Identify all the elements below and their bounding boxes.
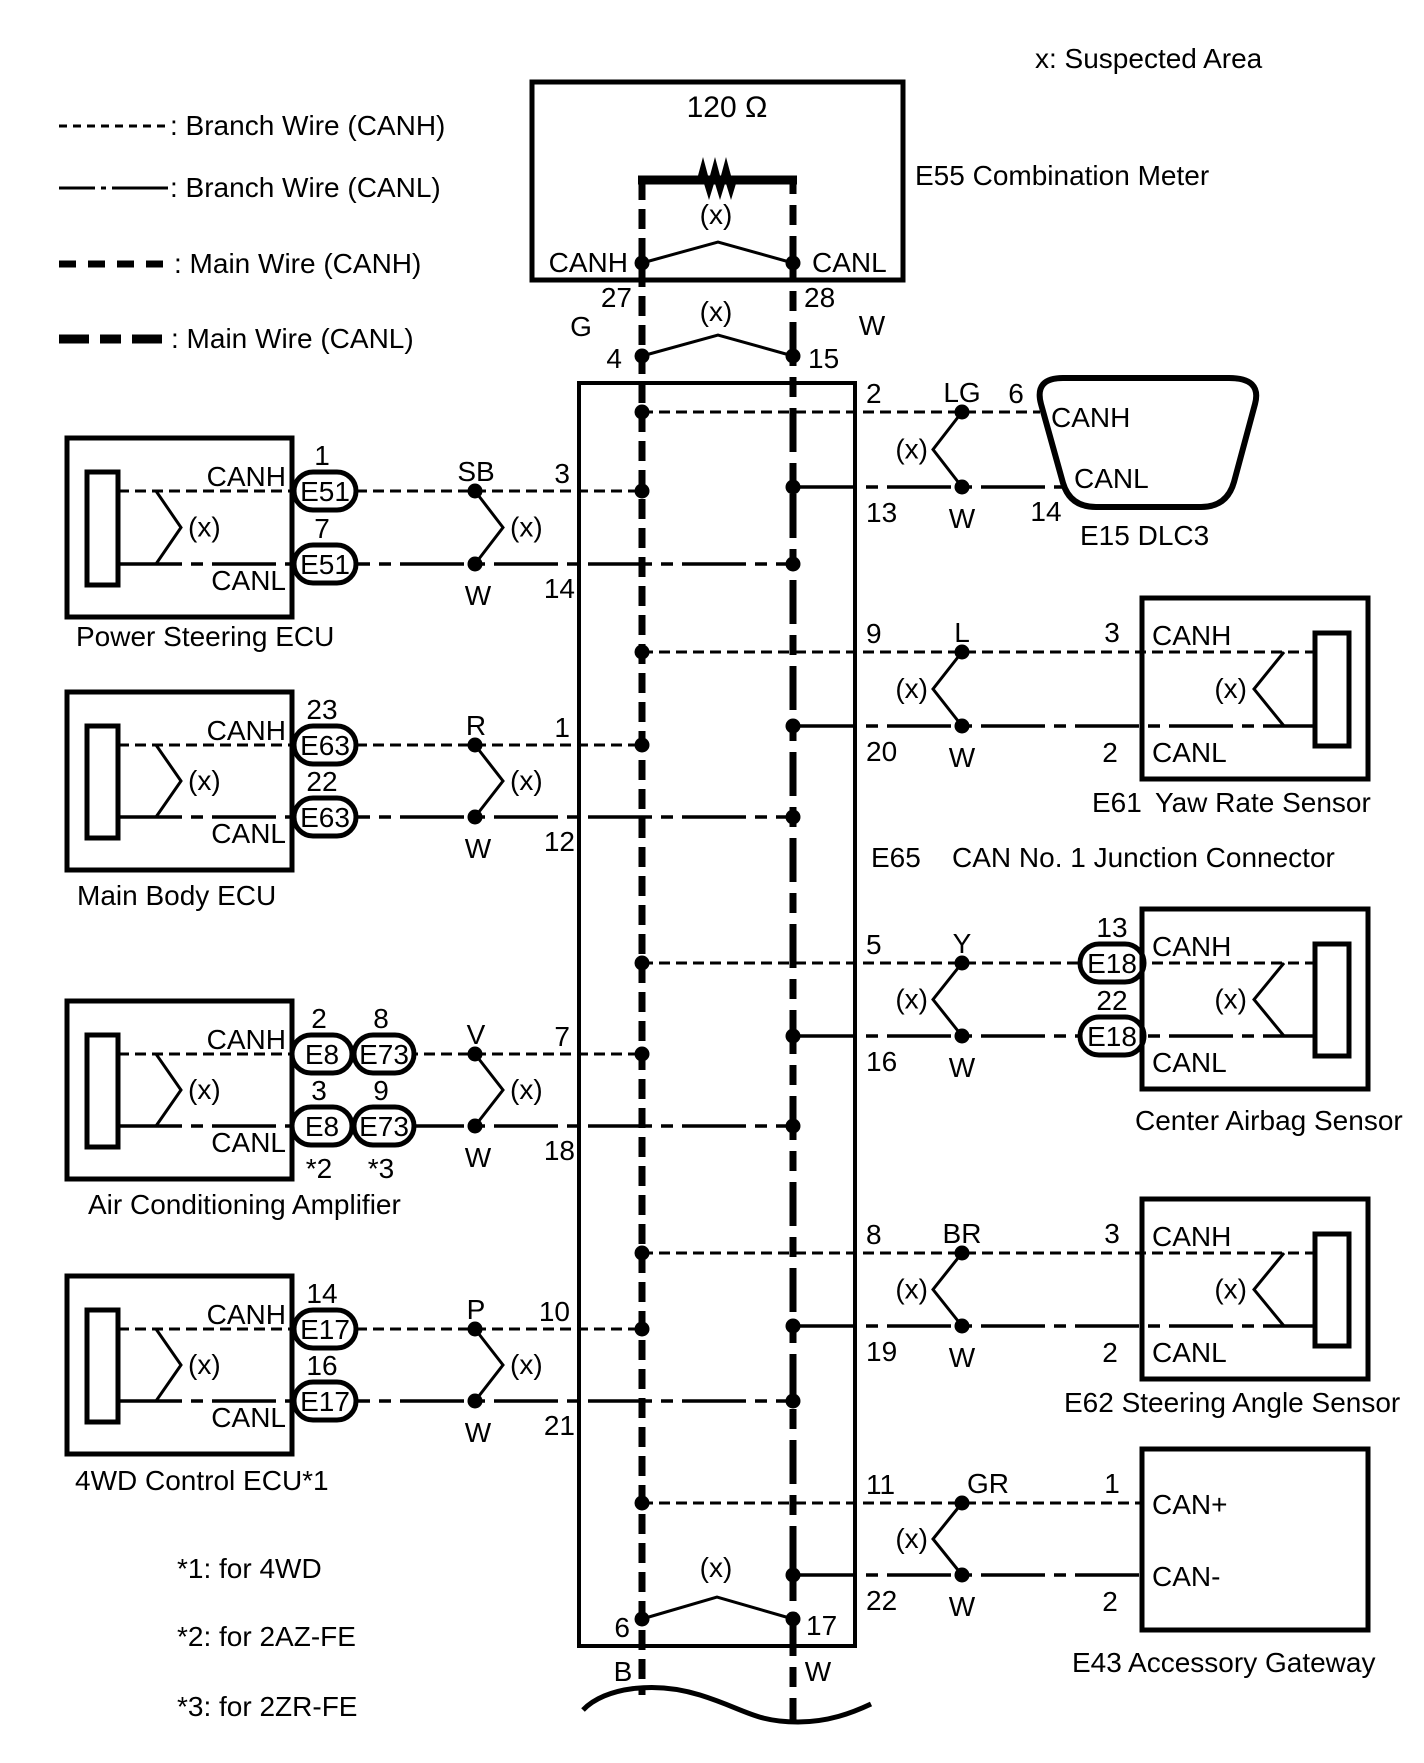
E62 Steering Angle Sensor box (1142, 1199, 1368, 1379)
svg-text:15: 15 (808, 343, 839, 374)
connector code E63 on CANL of Main Body ECU (294, 798, 356, 836)
legend sample line: Branch Wire (CANH), thin dashed (59, 125, 168, 128)
suspect pointer (x) at junction bottom (642, 1597, 793, 1619)
svg-text:CAN+: CAN+ (1152, 1489, 1227, 1520)
svg-text:x: Suspected Area: x: Suspected Area (1035, 43, 1263, 74)
svg-text:: Main Wire (CANH): : Main Wire (CANH) (174, 248, 421, 279)
svg-text:: Branch Wire (CANL): : Branch Wire (CANL) (170, 172, 441, 203)
svg-text:2: 2 (1102, 1337, 1118, 1368)
wire: branch CANH from main wire to Center Airbag Sensor (642, 962, 1315, 965)
svg-text:W: W (805, 1656, 832, 1687)
E15 DLC3 connector trapezoid (1040, 378, 1257, 507)
svg-text:CANH: CANH (1152, 620, 1231, 651)
wire: branch CANH from Power Steering ECU to main wire (118, 490, 642, 493)
svg-text:W: W (949, 742, 976, 773)
suspect pointer (x) on branch pair (475, 491, 503, 564)
node: main wire CANH joint for E61 Yaw Rate Sensor (635, 645, 650, 660)
node: main wire CANL joint for E15 DLC3 (786, 480, 801, 495)
svg-text:CANL: CANL (1152, 1047, 1227, 1078)
svg-text:(x): (x) (188, 765, 221, 796)
svg-text:E63: E63 (300, 802, 350, 833)
svg-text:W: W (949, 1342, 976, 1373)
node: main wire CANL joint for Air Conditioning Amplifier (786, 1119, 801, 1134)
svg-text:1: 1 (1104, 1468, 1120, 1499)
svg-text:E15 DLC3: E15 DLC3 (1080, 520, 1209, 551)
svg-text:1: 1 (554, 712, 570, 743)
node: main wire CANH joint for Center Airbag Sensor (635, 956, 650, 971)
svg-text:Yaw Rate Sensor: Yaw Rate Sensor (1155, 787, 1371, 818)
svg-text:CANL: CANL (812, 247, 887, 278)
svg-text:(x): (x) (895, 984, 928, 1015)
svg-text:12: 12 (544, 826, 575, 857)
svg-text:17: 17 (806, 1610, 837, 1641)
svg-text:5: 5 (866, 929, 882, 960)
suspect pointer (x) on branch pair (475, 1329, 503, 1401)
svg-text:20: 20 (866, 736, 897, 767)
svg-text:3: 3 (1104, 617, 1120, 648)
node on branch CANH (SB) (468, 484, 483, 499)
Air Conditioning Amplifier box (67, 1001, 292, 1179)
svg-text:P: P (467, 1294, 486, 1325)
svg-text:9: 9 (866, 618, 882, 649)
svg-text:8: 8 (373, 1003, 389, 1034)
node on branch CANL (955, 1029, 970, 1044)
node on branch CANL (W) (468, 1119, 483, 1134)
svg-text:3: 3 (1104, 1218, 1120, 1249)
node: main wire CANH joint for E62 Steering Angle Sensor (635, 1246, 650, 1261)
svg-text:E8: E8 (305, 1111, 339, 1142)
node on branch CANH (955, 1496, 970, 1511)
Power Steering ECU box (67, 438, 292, 617)
svg-text:2: 2 (1102, 1586, 1118, 1617)
suspect pointer (x) inside Power Steering ECU (156, 491, 181, 564)
svg-text:LG: LG (943, 377, 980, 408)
svg-text:22: 22 (1096, 985, 1127, 1016)
suspect pointer (x) on branch pair (933, 1503, 962, 1575)
svg-text:3: 3 (554, 458, 570, 489)
svg-text:(x): (x) (510, 1349, 543, 1380)
Center Airbag Sensor box (1142, 909, 1368, 1089)
svg-text:14: 14 (544, 573, 575, 604)
svg-text:CANH: CANH (207, 1299, 286, 1330)
svg-text:(x): (x) (895, 1523, 928, 1554)
suspect pointer (x) on branch pair (933, 652, 962, 726)
svg-text:CANL: CANL (211, 1127, 286, 1158)
svg-text:14: 14 (306, 1278, 337, 1309)
legend sample line: Main Wire (CANL), bold long-dash (59, 335, 172, 344)
svg-text:CANH: CANH (1152, 931, 1231, 962)
node: junction pin 4 (635, 349, 650, 364)
node on branch CANL (955, 719, 970, 734)
svg-text:21: 21 (544, 1410, 575, 1441)
svg-text:1: 1 (314, 440, 330, 471)
svg-text:L: L (954, 617, 970, 648)
node: main wire CANH joint for E43 Accessory Gateway (635, 1496, 650, 1511)
node: E55 CANH pin 27 (635, 256, 650, 271)
svg-text:16: 16 (306, 1350, 337, 1381)
resistor zigzag element (696, 157, 738, 200)
suspect pointer (x) inside 4WD Control ECU*1 (156, 1329, 181, 1401)
wire: branch CANL from Main Body ECU to main wire (118, 815, 793, 819)
connector code E51 on CANL of Power Steering ECU (294, 545, 356, 583)
svg-text:2: 2 (866, 378, 882, 409)
suspect pointer (x) inside Main Body ECU (156, 745, 181, 817)
svg-text:4WD Control ECU*1: 4WD Control ECU*1 (75, 1465, 329, 1496)
svg-text:6: 6 (614, 1612, 630, 1643)
node: junction pin 17 (786, 1612, 801, 1627)
svg-text:E43 Accessory Gateway: E43 Accessory Gateway (1072, 1647, 1375, 1678)
svg-text:Main Body ECU: Main Body ECU (77, 880, 276, 911)
svg-text:(x): (x) (895, 434, 928, 465)
wire: branch CANL from Air Conditioning Amplifier to main wire (118, 1124, 793, 1128)
svg-text:(x): (x) (188, 1074, 221, 1105)
svg-text:28: 28 (804, 282, 835, 313)
connector code E8 on CANL of Air Conditioning Amplifier (292, 1107, 352, 1145)
svg-text:CANL: CANL (1074, 463, 1149, 494)
node: main wire CANL joint for Center Airbag Sensor (786, 1029, 801, 1044)
suspect pointer (x) on branch pair (933, 963, 962, 1036)
svg-text:(x): (x) (188, 1349, 221, 1380)
node: main wire CANH joint for Power Steering ECU (635, 484, 650, 499)
svg-text:(x): (x) (510, 765, 543, 796)
suspect pointer (x) on branch pair (933, 412, 962, 487)
svg-text:(x): (x) (700, 1552, 733, 1583)
svg-text:18: 18 (544, 1135, 575, 1166)
svg-text:CANL: CANL (1152, 737, 1227, 768)
svg-text:W: W (949, 503, 976, 534)
svg-text:23: 23 (306, 694, 337, 725)
svg-text:(x): (x) (510, 512, 543, 543)
svg-text:*1: for 4WD: *1: for 4WD (177, 1553, 322, 1584)
suspect pointer (x) on branch pair (475, 745, 503, 817)
svg-text:2: 2 (1102, 737, 1118, 768)
connector code E73 on CANH of Air Conditioning Amplifier (354, 1035, 414, 1073)
wire: branch CANL from Power Steering ECU to main wire (118, 562, 793, 566)
svg-text:4: 4 (606, 343, 622, 374)
E55 Combination Meter box (532, 82, 903, 280)
svg-text:(x): (x) (700, 296, 733, 327)
connector code E63 on CANH of Main Body ECU (294, 726, 356, 764)
node on branch CANL (W) (468, 810, 483, 825)
svg-text:(x): (x) (700, 199, 733, 230)
Main Body ECU connector pin block (87, 726, 118, 838)
legend sample line: Branch Wire (CANL), thin dash-dot (59, 187, 95, 190)
svg-text:11: 11 (866, 1469, 895, 1500)
node on branch CANH (955, 645, 970, 660)
svg-text:*2: for 2AZ-FE: *2: for 2AZ-FE (177, 1621, 356, 1652)
svg-text:16: 16 (866, 1046, 897, 1077)
connector code E8 on CANH of Air Conditioning Amplifier (292, 1035, 352, 1073)
svg-text:E62 Steering Angle Sensor: E62 Steering Angle Sensor (1064, 1387, 1400, 1418)
node: main wire CANH joint for 4WD Control ECU*1 (635, 1322, 650, 1337)
Power Steering ECU connector pin block (87, 472, 118, 585)
node: junction pin 6 (635, 1612, 650, 1627)
4WD Control ECU*1 connector pin block (87, 1310, 118, 1422)
svg-text:E18: E18 (1087, 1021, 1137, 1052)
svg-text:W: W (949, 1591, 976, 1622)
svg-text:CANL: CANL (211, 1402, 286, 1433)
connector code E17 on CANL of 4WD Control ECU*1 (294, 1382, 356, 1420)
wire: branch CANH from main wire to E61 (642, 651, 1315, 654)
svg-text:6: 6 (1008, 378, 1024, 409)
svg-text:7: 7 (554, 1021, 570, 1052)
Center Airbag Sensor connector pin block (1315, 944, 1349, 1056)
svg-text:E73: E73 (359, 1039, 409, 1070)
node on branch CANH (V) (468, 1047, 483, 1062)
wire: branch CANH from Main Body ECU to main wire (118, 744, 642, 747)
svg-text:(x): (x) (1214, 984, 1247, 1015)
svg-text:CANH: CANH (1051, 402, 1130, 433)
E43 Accessory Gateway box (1142, 1449, 1368, 1630)
svg-text:CANH: CANH (207, 461, 286, 492)
svg-text:CANL: CANL (1152, 1337, 1227, 1368)
svg-text:CAN-: CAN- (1152, 1561, 1220, 1592)
svg-text:Air Conditioning Amplifier: Air Conditioning Amplifier (88, 1189, 401, 1220)
node: main wire CANH joint for Main Body ECU (635, 738, 650, 753)
wire: branch CANH from main wire to E62 (642, 1252, 1315, 1255)
svg-text:(x): (x) (895, 1274, 928, 1305)
svg-text:CANL: CANL (211, 565, 286, 596)
node on branch CANL (955, 1319, 970, 1334)
svg-text:W: W (465, 833, 492, 864)
svg-text:13: 13 (866, 497, 897, 528)
svg-text:Y: Y (953, 928, 972, 959)
connector code E51 on CANH of Power Steering ECU (294, 472, 356, 510)
svg-text:19: 19 (866, 1336, 897, 1367)
wire: branch CAN- from main wire to E43 (793, 1573, 1142, 1577)
svg-text:*3: *3 (368, 1153, 394, 1184)
svg-text:13: 13 (1096, 912, 1127, 943)
suspect pointer (x) between meter and junction (642, 335, 793, 356)
node: main wire CANL joint for E43 Accessory Gateway (786, 1568, 801, 1583)
svg-text:*2: *2 (306, 1153, 332, 1184)
node on branch CANL (W) (468, 1394, 483, 1409)
node: junction pin 15 (786, 349, 801, 364)
svg-text:(x): (x) (895, 673, 928, 704)
Air Conditioning Amplifier connector pin block (87, 1035, 118, 1147)
node: main wire CANL joint for Main Body ECU (786, 810, 801, 825)
node on branch CANH (955, 1246, 970, 1261)
wire: branch CANH from Air Conditioning Amplifier to main wire (118, 1053, 642, 1056)
svg-text:9: 9 (373, 1075, 389, 1106)
svg-text:E55 Combination Meter: E55 Combination Meter (915, 160, 1209, 191)
svg-text:W: W (465, 1417, 492, 1448)
svg-text:CANH: CANH (549, 247, 628, 278)
connector code E73 on CANL of Air Conditioning Amplifier (354, 1107, 414, 1145)
svg-text:E65: E65 (871, 842, 921, 873)
svg-text:BR: BR (943, 1218, 982, 1249)
svg-text:E61: E61 (1092, 787, 1142, 818)
svg-text:R: R (466, 710, 486, 741)
svg-text:W: W (859, 310, 886, 341)
svg-text:E51: E51 (300, 476, 350, 507)
svg-text:CANH: CANH (207, 715, 286, 746)
main wire CANL (right bold long-dash vertical) (790, 180, 797, 1724)
svg-text:GR: GR (967, 1468, 1009, 1499)
break squiggle (583, 1688, 871, 1722)
node on branch CANH (955, 956, 970, 971)
4WD Control ECU*1 box (67, 1276, 292, 1454)
wire: branch CAN+ from main wire to E43 (642, 1502, 1142, 1505)
node on branch CANL (955, 1568, 970, 1583)
svg-text:CANH: CANH (207, 1024, 286, 1055)
wire: branch CANH from main wire to E15 DLC3 (642, 411, 1040, 414)
Main Body ECU box (67, 692, 292, 870)
svg-text:E73: E73 (359, 1111, 409, 1142)
suspect pointer (x) inside E62 Steering Angle Sensor (1254, 1253, 1284, 1326)
svg-text:(x): (x) (510, 1074, 543, 1105)
svg-text:(x): (x) (188, 512, 221, 543)
main wire CANH (left bold dashed vertical) (639, 180, 646, 1695)
svg-text:7: 7 (314, 513, 330, 544)
svg-text:22: 22 (306, 766, 337, 797)
node on branch CANH (955, 405, 970, 420)
E65 CAN No.1 Junction Connector box (579, 383, 855, 1646)
svg-text:: Main Wire (CANL): : Main Wire (CANL) (171, 323, 414, 354)
E62 Steering Angle Sensor connector pin block (1315, 1234, 1349, 1346)
node on branch CANL (955, 480, 970, 495)
svg-text:120 Ω: 120 Ω (687, 91, 768, 124)
svg-text:*3: for 2ZR-FE: *3: for 2ZR-FE (177, 1691, 357, 1722)
svg-text:2: 2 (311, 1003, 327, 1034)
svg-text:Center Airbag Sensor: Center Airbag Sensor (1135, 1105, 1403, 1136)
resistor 120-ohm bar (638, 176, 797, 185)
legend sample line: Main Wire (CANH), bold dashed (59, 261, 172, 268)
node: main wire CANL joint for Power Steering ECU (786, 557, 801, 572)
E61 Yaw Rate Sensor box (1142, 598, 1368, 779)
wire: branch CANL from main wire to E61 (793, 724, 1315, 728)
svg-text:B: B (614, 1656, 633, 1687)
svg-text:E51: E51 (300, 549, 350, 580)
svg-text:G: G (570, 311, 592, 342)
node: E55 CANL pin 28 (786, 256, 801, 271)
svg-text:SB: SB (457, 456, 494, 487)
svg-text:W: W (949, 1052, 976, 1083)
wire: branch CANL from main wire to E62 (793, 1324, 1315, 1328)
suspect pointer (x) inside Air Conditioning Amplifier (156, 1054, 181, 1126)
svg-text:E17: E17 (300, 1386, 350, 1417)
svg-text:E18: E18 (1087, 948, 1137, 979)
node: main wire CANL joint for 4WD Control ECU*1 (786, 1394, 801, 1409)
svg-text:(x): (x) (1214, 1274, 1247, 1305)
wire: branch CANL from 4WD Control ECU*1 to main wire (118, 1399, 793, 1403)
connector code E17 on CANH of 4WD Control ECU*1 (294, 1310, 356, 1348)
suspect pointer (x) inside Center Airbag Sensor (1254, 963, 1284, 1036)
node on branch CANH (R) (468, 738, 483, 753)
svg-text:W: W (465, 1142, 492, 1173)
node on branch CANL (W) (468, 557, 483, 572)
connector code E18 on CANH (1080, 944, 1144, 982)
wire: branch CANL from main wire to Center Airbag Sensor (793, 1034, 1315, 1038)
svg-text:E63: E63 (300, 730, 350, 761)
node: main wire CANL joint for E62 Steering Angle Sensor (786, 1319, 801, 1334)
node on branch CANH (P) (468, 1322, 483, 1337)
svg-text:E17: E17 (300, 1314, 350, 1345)
svg-text:V: V (467, 1019, 486, 1050)
suspect pointer (x) on branch pair (475, 1054, 503, 1126)
svg-text:(x): (x) (1214, 673, 1247, 704)
svg-text:E8: E8 (305, 1039, 339, 1070)
suspect pointer (x) inside E61 Yaw Rate Sensor (1254, 652, 1284, 726)
svg-text:27: 27 (601, 282, 632, 313)
connector code E18 on CANL (1080, 1017, 1144, 1055)
wire: branch CANL from main wire to E15 DLC3 (793, 485, 1062, 489)
suspect pointer (x) inside E55 (642, 242, 793, 263)
node: main wire CANH joint for E15 DLC3 (635, 405, 650, 420)
wire: branch CANH from 4WD Control ECU*1 to main wire (118, 1328, 642, 1331)
svg-text:: Branch Wire (CANH): : Branch Wire (CANH) (170, 110, 445, 141)
svg-text:CAN No. 1 Junction Connector: CAN No. 1 Junction Connector (952, 842, 1335, 873)
svg-text:14: 14 (1030, 496, 1061, 527)
svg-text:22: 22 (866, 1585, 897, 1616)
svg-text:Power Steering ECU: Power Steering ECU (76, 621, 334, 652)
node: main wire CANL joint for E61 Yaw Rate Sensor (786, 719, 801, 734)
E61 Yaw Rate Sensor connector pin block (1315, 633, 1349, 746)
svg-text:W: W (465, 580, 492, 611)
svg-text:CANL: CANL (211, 818, 286, 849)
svg-text:8: 8 (866, 1219, 882, 1250)
svg-text:3: 3 (311, 1075, 327, 1106)
svg-text:10: 10 (539, 1296, 570, 1327)
suspect pointer (x) on branch pair (933, 1253, 962, 1326)
node: main wire CANH joint for Air Conditioning Amplifier (635, 1047, 650, 1062)
svg-text:CANH: CANH (1152, 1221, 1231, 1252)
